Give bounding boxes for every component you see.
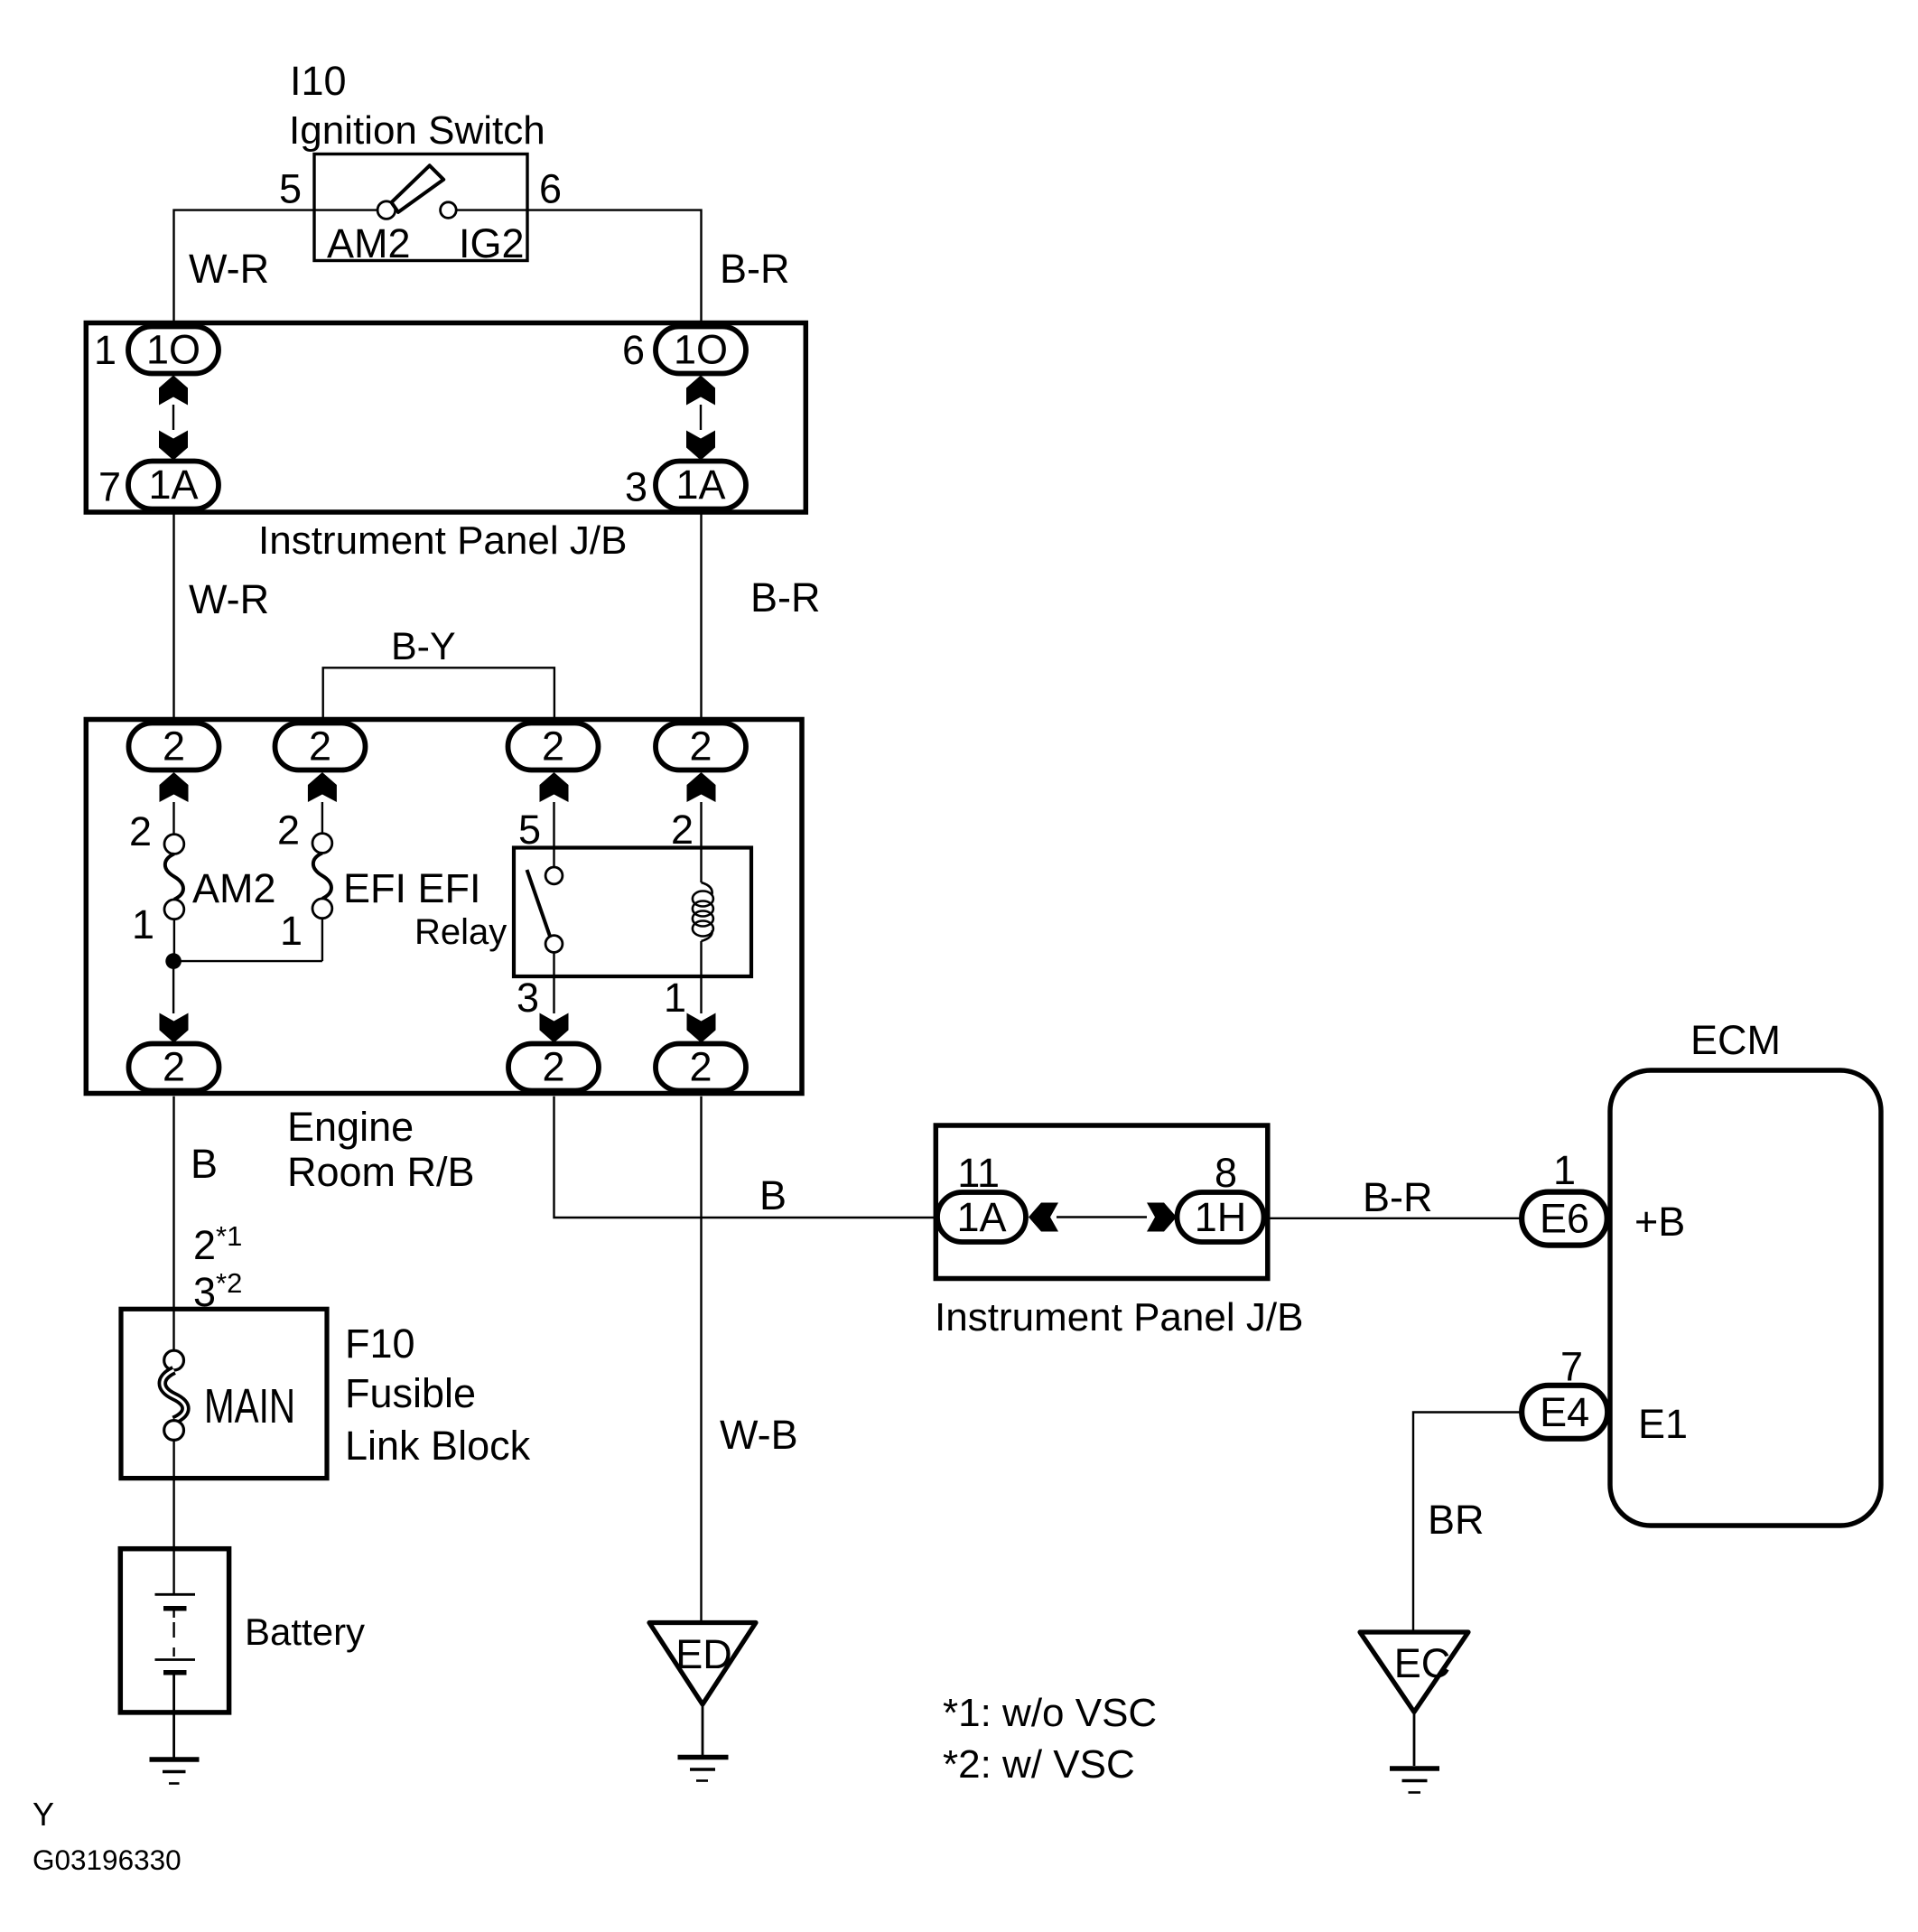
arrow into oval 2 relay switch column: [540, 772, 569, 867]
wire BR from E4 to EC ground: [1413, 1413, 1522, 1633]
engine room R/B box: [86, 720, 802, 1094]
svg-text:1A: 1A: [148, 462, 198, 508]
svg-text:Relay: Relay: [414, 912, 507, 952]
svg-text:AM2: AM2: [327, 220, 411, 266]
wire B-Y jumper: [323, 667, 554, 721]
wire W-B relay coil output to ED ground: [700, 1097, 702, 1623]
svg-text:2: 2: [689, 1044, 712, 1090]
svg-text:B-Y: B-Y: [391, 625, 456, 668]
svg-text:Battery: Battery: [245, 1610, 365, 1653]
svg-text:+B: +B: [1634, 1199, 1685, 1245]
svg-text:1O: 1O: [146, 327, 200, 373]
svg-text:2: 2: [163, 723, 185, 770]
svg-text:B-R: B-R: [1363, 1174, 1433, 1220]
ground symbol EC: [1390, 1769, 1439, 1793]
connector oval 2 top relay switch column: [508, 723, 599, 770]
svg-text:*2: w/ VSC: *2: w/ VSC: [943, 1742, 1135, 1787]
svg-text:E6: E6: [1540, 1196, 1589, 1242]
svg-text:1H: 1H: [1195, 1194, 1247, 1240]
connector oval 1A pin 3: [656, 462, 746, 509]
svg-text:Instrument Panel J/B: Instrument Panel J/B: [258, 518, 627, 563]
svg-text:EC: EC: [1394, 1640, 1451, 1686]
svg-text:3: 3: [625, 464, 647, 510]
connector mating arrow pointing left: [1029, 1203, 1058, 1232]
svg-text:6: 6: [539, 166, 562, 212]
wire B from engine room R/B to fusible link block: [172, 1097, 174, 1351]
svg-text:11: 11: [957, 1150, 1000, 1196]
arrow out of relay pin 3 into bottom oval 2: [540, 952, 569, 1042]
svg-text:W-R: W-R: [189, 576, 269, 622]
svg-text:5: 5: [518, 807, 541, 853]
connector oval E6: [1522, 1192, 1607, 1246]
ground symbol below battery: [150, 1759, 200, 1784]
connector oval 2 top AM2 column: [129, 723, 219, 770]
relay moving contact pin 3: [545, 936, 563, 953]
EC ground triangle: [1360, 1632, 1468, 1712]
svg-text:Ignition Switch: Ignition Switch: [289, 108, 545, 153]
junction dot: [165, 953, 182, 969]
ignition switch lever: [392, 165, 444, 212]
connector mating arrow pointing right: [1147, 1203, 1177, 1232]
svg-text:2: 2: [542, 723, 564, 770]
svg-text:W-B: W-B: [720, 1412, 798, 1458]
svg-text:1: 1: [664, 975, 686, 1021]
svg-text:ED: ED: [675, 1631, 732, 1677]
battery symbol: [155, 1594, 196, 1673]
wire B from relay pin 3 to instrument panel J/B lower: [554, 1097, 937, 1218]
svg-text:MAIN: MAIN: [204, 1379, 295, 1433]
svg-text:3: 3: [517, 975, 539, 1021]
svg-text:E4: E4: [1540, 1389, 1589, 1435]
arrow into oval 2 EFI column: [308, 772, 337, 834]
svg-text:AM2: AM2: [192, 865, 276, 911]
ED ground triangle: [649, 1623, 756, 1705]
connector mating arrows right: [686, 376, 715, 461]
ground symbol ED: [678, 1758, 729, 1781]
svg-text:2: 2: [689, 723, 712, 770]
instrument panel J/B box upper: [86, 323, 805, 513]
wire EC triangle to ground: [1413, 1712, 1416, 1766]
connector oval 1H lower J/B: [1178, 1192, 1264, 1242]
svg-text:I10: I10: [290, 58, 347, 104]
connector oval 1O pin 6: [656, 327, 746, 374]
svg-text:F10: F10: [345, 1321, 415, 1367]
svg-text:B-R: B-R: [750, 574, 821, 621]
svg-text:EFI EFI: EFI EFI: [343, 865, 481, 911]
relay fixed contact pin 5: [545, 867, 563, 884]
svg-text:2: 2: [163, 1044, 185, 1090]
battery box: [120, 1549, 228, 1713]
connector oval 1A lower J/B: [937, 1192, 1026, 1242]
svg-text:2: 2: [671, 807, 694, 853]
wire B-R J/B to ECM E6: [1268, 1218, 1522, 1219]
svg-text:7: 7: [98, 464, 121, 510]
connector oval 2 top relay coil column: [656, 723, 746, 770]
ignition switch I10 box: [314, 154, 527, 261]
svg-text:1A: 1A: [675, 462, 725, 508]
relay coil: [693, 882, 713, 941]
wire ED triangle to ground: [702, 1704, 704, 1755]
svg-text:1O: 1O: [674, 327, 728, 373]
ignition switch AM2 contact: [377, 201, 396, 219]
svg-text:Fusible: Fusible: [345, 1370, 476, 1416]
svg-text:1: 1: [1553, 1147, 1576, 1193]
wire jumper from AM2 fuse output to EFI fuse output: [173, 960, 322, 962]
ignition switch IG2 contact: [441, 202, 457, 219]
svg-text:8: 8: [1215, 1150, 1237, 1196]
svg-text:1: 1: [132, 901, 154, 947]
connector mating arrows left: [159, 376, 188, 461]
svg-text:ECM: ECM: [1690, 1017, 1781, 1063]
svg-text:*1: w/o VSC: *1: w/o VSC: [943, 1691, 1157, 1735]
ignition switch internal wire: [314, 209, 527, 210]
svg-text:1: 1: [280, 908, 303, 954]
svg-text:B: B: [759, 1172, 787, 1218]
svg-text:2: 2: [309, 723, 331, 770]
svg-text:5: 5: [279, 166, 302, 212]
wire battery negative to ground: [172, 1675, 175, 1758]
svg-text:B: B: [191, 1141, 218, 1187]
svg-text:2: 2: [542, 1044, 564, 1090]
svg-text:1A: 1A: [956, 1194, 1006, 1240]
wire B-R J/B to engine room R/B: [700, 509, 702, 724]
arrow into oval 2 relay coil column: [687, 772, 716, 882]
connector oval 1A pin 7: [128, 462, 219, 509]
relay box: [514, 848, 751, 977]
svg-text:2: 2: [277, 807, 300, 854]
fusible link block F10 box: [121, 1309, 327, 1478]
svg-text:Link Block: Link Block: [345, 1423, 531, 1469]
fuse AM2: [164, 835, 184, 954]
svg-text:E1: E1: [1638, 1401, 1688, 1447]
svg-text:Instrument Panel J/B: Instrument Panel J/B: [935, 1295, 1303, 1339]
arrow into oval 2 AM2 column: [160, 772, 189, 835]
wire fusible link to battery: [172, 1440, 174, 1594]
relay switch arm: [527, 870, 551, 938]
arrow out of AM2 column into bottom oval 2: [160, 961, 189, 1042]
wire B-R from ignition pin 6 to J/B pin 6: [527, 210, 702, 328]
connector oval 2 top EFI column: [275, 723, 366, 770]
svg-text:6: 6: [622, 327, 645, 373]
fusible link MAIN: [163, 1350, 186, 1440]
instrument panel J/B box lower: [936, 1125, 1268, 1279]
connector oval 2 bottom relay coil column: [656, 1044, 746, 1091]
arrow out of relay coil pin 1 into bottom oval 2: [687, 941, 716, 1043]
connector oval 1O pin 1: [128, 327, 219, 374]
wire W-R from ignition pin 5 to J/B pin 1: [174, 210, 315, 328]
svg-text:2: 2: [129, 808, 152, 854]
svg-text:1: 1: [94, 327, 116, 373]
internal wire between arrows: [1057, 1216, 1147, 1218]
svg-text:B-R: B-R: [720, 246, 790, 292]
svg-text:IG2: IG2: [459, 220, 525, 266]
svg-text:W-R: W-R: [189, 246, 269, 292]
ECM box: [1610, 1070, 1881, 1526]
svg-text:Engine: Engine: [287, 1104, 414, 1150]
connector oval E4: [1522, 1386, 1607, 1439]
connector oval 2 bottom relay switch column: [508, 1044, 599, 1091]
svg-text:BR: BR: [1428, 1497, 1485, 1543]
svg-text:Y: Y: [33, 1796, 54, 1833]
fuse EFI: [312, 834, 332, 962]
connector oval 2 bottom AM2 column: [129, 1044, 219, 1091]
svg-text:G03196330: G03196330: [33, 1843, 182, 1876]
svg-text:Room R/B: Room R/B: [287, 1149, 475, 1195]
wire W-R J/B to engine room R/B: [172, 509, 174, 724]
